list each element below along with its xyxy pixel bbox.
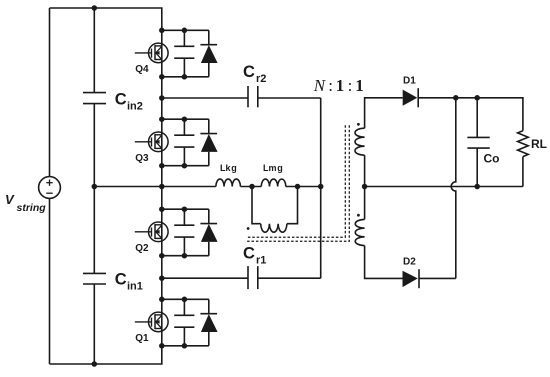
wire output right rail lower: [522, 157, 524, 187]
svg-text:r1: r1: [256, 255, 266, 267]
wire secondary bottom lead: [365, 246, 403, 279]
capacitor Cin1: [83, 273, 106, 284]
polarity dot S2: [357, 214, 360, 217]
transformer primary winding: [261, 224, 287, 232]
svg-text:1: 1: [336, 76, 345, 95]
junction Q3 source node: [159, 163, 165, 169]
wire Q2 cell bottom rail: [162, 255, 209, 257]
svg-text:in2: in2: [127, 101, 143, 113]
junction Q2 drain node: [159, 206, 165, 212]
svg-text:D2: D2: [403, 257, 416, 268]
junction input branch top: [92, 5, 98, 11]
wire D2 to link: [419, 277, 456, 279]
diode Q2 body diode: [200, 209, 217, 256]
capacitor Cr2: [248, 86, 258, 107]
wire primary right lead: [287, 187, 298, 224]
junction Q3 snubber top: [182, 116, 188, 122]
junction Q4 snubber bottom: [182, 74, 188, 80]
polarity dot primary: [247, 227, 250, 230]
svg-text::: :: [348, 76, 353, 95]
junction Q2 snubber top: [182, 206, 188, 212]
label Cin1: [115, 271, 143, 293]
svg-text:in1: in1: [127, 281, 143, 293]
transformer secondary winding S1: [355, 128, 365, 155]
diode D2: [403, 269, 420, 288]
label Vstring: [5, 192, 46, 214]
wire Lkg-Lmg: [240, 186, 261, 188]
wire Lmg to node: [286, 186, 321, 188]
wire resonant vertical link: [320, 98, 322, 278]
wire Cr1 right: [258, 277, 321, 279]
wire input branch middle: [93, 104, 95, 274]
junction input branch bottom: [92, 361, 98, 367]
svg-text:C: C: [243, 245, 255, 263]
resistor RL: [518, 131, 529, 157]
svg-text:N: N: [313, 76, 327, 95]
svg-text:r2: r2: [256, 73, 266, 85]
wire rectifier link with crossover hop: [451, 98, 456, 279]
junction bus center node: [159, 184, 165, 190]
transformer core leg 2: [247, 125, 350, 241]
junction Co bottom: [474, 184, 480, 190]
svg-text:string: string: [17, 202, 47, 214]
wire secondary top lead: [365, 98, 403, 128]
wire center line left: [162, 186, 216, 188]
wire Q3 cell top rail: [162, 118, 209, 120]
label Cr1: [243, 245, 266, 267]
wire input branch upper: [93, 8, 95, 93]
label turns ratio N:1:1: [313, 76, 364, 95]
svg-text:RL: RL: [531, 137, 547, 151]
svg-text:C: C: [115, 90, 127, 108]
wire primary left lead: [252, 187, 261, 224]
diode Q4 body diode: [200, 30, 217, 77]
svg-text:1: 1: [355, 76, 364, 95]
junction Q3 drain node: [159, 116, 165, 122]
svg-text:Co: Co: [484, 152, 500, 166]
svg-text:D1: D1: [403, 76, 416, 87]
svg-text:Q3: Q3: [135, 153, 149, 164]
capacitor Cin2: [83, 93, 106, 104]
junction node midpoint Q4-Q3: [159, 95, 165, 101]
wire Q2 cell top rail: [162, 208, 209, 210]
junction D1 cathode node: [453, 95, 459, 101]
capacitor Co: [467, 98, 489, 187]
transformer secondary winding S2: [355, 219, 364, 245]
wire Q4 cell bottom rail: [162, 76, 209, 78]
transformer core leg 1: [247, 125, 346, 237]
wire Cr2 left: [162, 97, 248, 99]
diode Q3 body diode: [200, 119, 217, 166]
transistor Q2: [135, 222, 168, 242]
svg-text:C: C: [243, 63, 255, 81]
wire input midpoint link: [94, 186, 162, 188]
junction node midpoint Q2-Q1: [159, 275, 165, 281]
junction node primary right: [295, 184, 301, 190]
wire top rail: [50, 8, 162, 30]
wire Q1 cell bottom rail: [162, 345, 209, 347]
junction Q2 source node: [159, 253, 165, 259]
wire left rail lower: [49, 198, 51, 364]
svg-text::: :: [328, 76, 333, 95]
junction Q4 snubber top: [182, 28, 188, 34]
junction center tap: [362, 184, 368, 190]
svg-text:Lmg: Lmg: [263, 163, 283, 173]
transistor Q4: [135, 43, 168, 63]
capacitor Q1 snubber: [174, 299, 194, 346]
capacitor Q4 snubber: [174, 30, 194, 77]
wire Cr2 right: [258, 97, 321, 99]
junction input capacitor midpoint: [92, 184, 98, 190]
capacitor Cr1: [248, 266, 258, 289]
capacitor Q2 snubber: [174, 209, 194, 256]
svg-text:Q4: Q4: [135, 64, 149, 75]
voltage source Vstring: [39, 177, 61, 199]
diode D1: [403, 88, 419, 107]
svg-text:C: C: [115, 271, 127, 289]
junction Q4 drain node: [159, 28, 165, 34]
diode Q1 body diode: [200, 299, 217, 346]
wire Q4 cell top rail: [162, 29, 209, 31]
polarity dot S1: [357, 123, 360, 126]
junction Q1 snubber bottom: [182, 343, 188, 349]
wire Q1 cell top rail: [162, 298, 209, 300]
svg-text:Q1: Q1: [135, 333, 149, 344]
junction Q1 drain node: [159, 297, 165, 303]
wire input branch lower: [93, 284, 95, 364]
junction Q4 source node: [159, 74, 165, 80]
label Cr2: [243, 63, 266, 85]
wire bottom rail: [50, 346, 162, 364]
junction resonant tank node: [318, 184, 324, 190]
junction Q2 snubber bottom: [182, 253, 188, 259]
capacitor Q3 snubber: [174, 119, 194, 166]
transistor Q3: [135, 132, 168, 152]
junction node primary left: [249, 184, 255, 190]
junction Q1 snubber top: [182, 297, 188, 303]
wire output bottom rail: [365, 186, 523, 188]
wire left rail upper: [49, 8, 51, 177]
label Cin2: [115, 90, 143, 112]
wire Q3 cell bottom rail: [162, 165, 209, 167]
svg-text:V: V: [5, 192, 15, 207]
svg-text:Lkg: Lkg: [220, 163, 237, 173]
junction Q3 snubber bottom: [182, 163, 188, 169]
inductor Lmg: [261, 179, 286, 186]
wire secondary center tap upper: [364, 155, 366, 219]
wire output top rail: [418, 98, 523, 131]
wire main bus: [161, 30, 163, 346]
inductor Lkg: [216, 179, 241, 186]
junction Q1 source node: [159, 343, 165, 349]
svg-text:Q2: Q2: [135, 243, 149, 254]
wire Cr1 left: [162, 277, 248, 279]
transistor Q1: [135, 312, 168, 332]
junction Co top: [474, 95, 480, 101]
